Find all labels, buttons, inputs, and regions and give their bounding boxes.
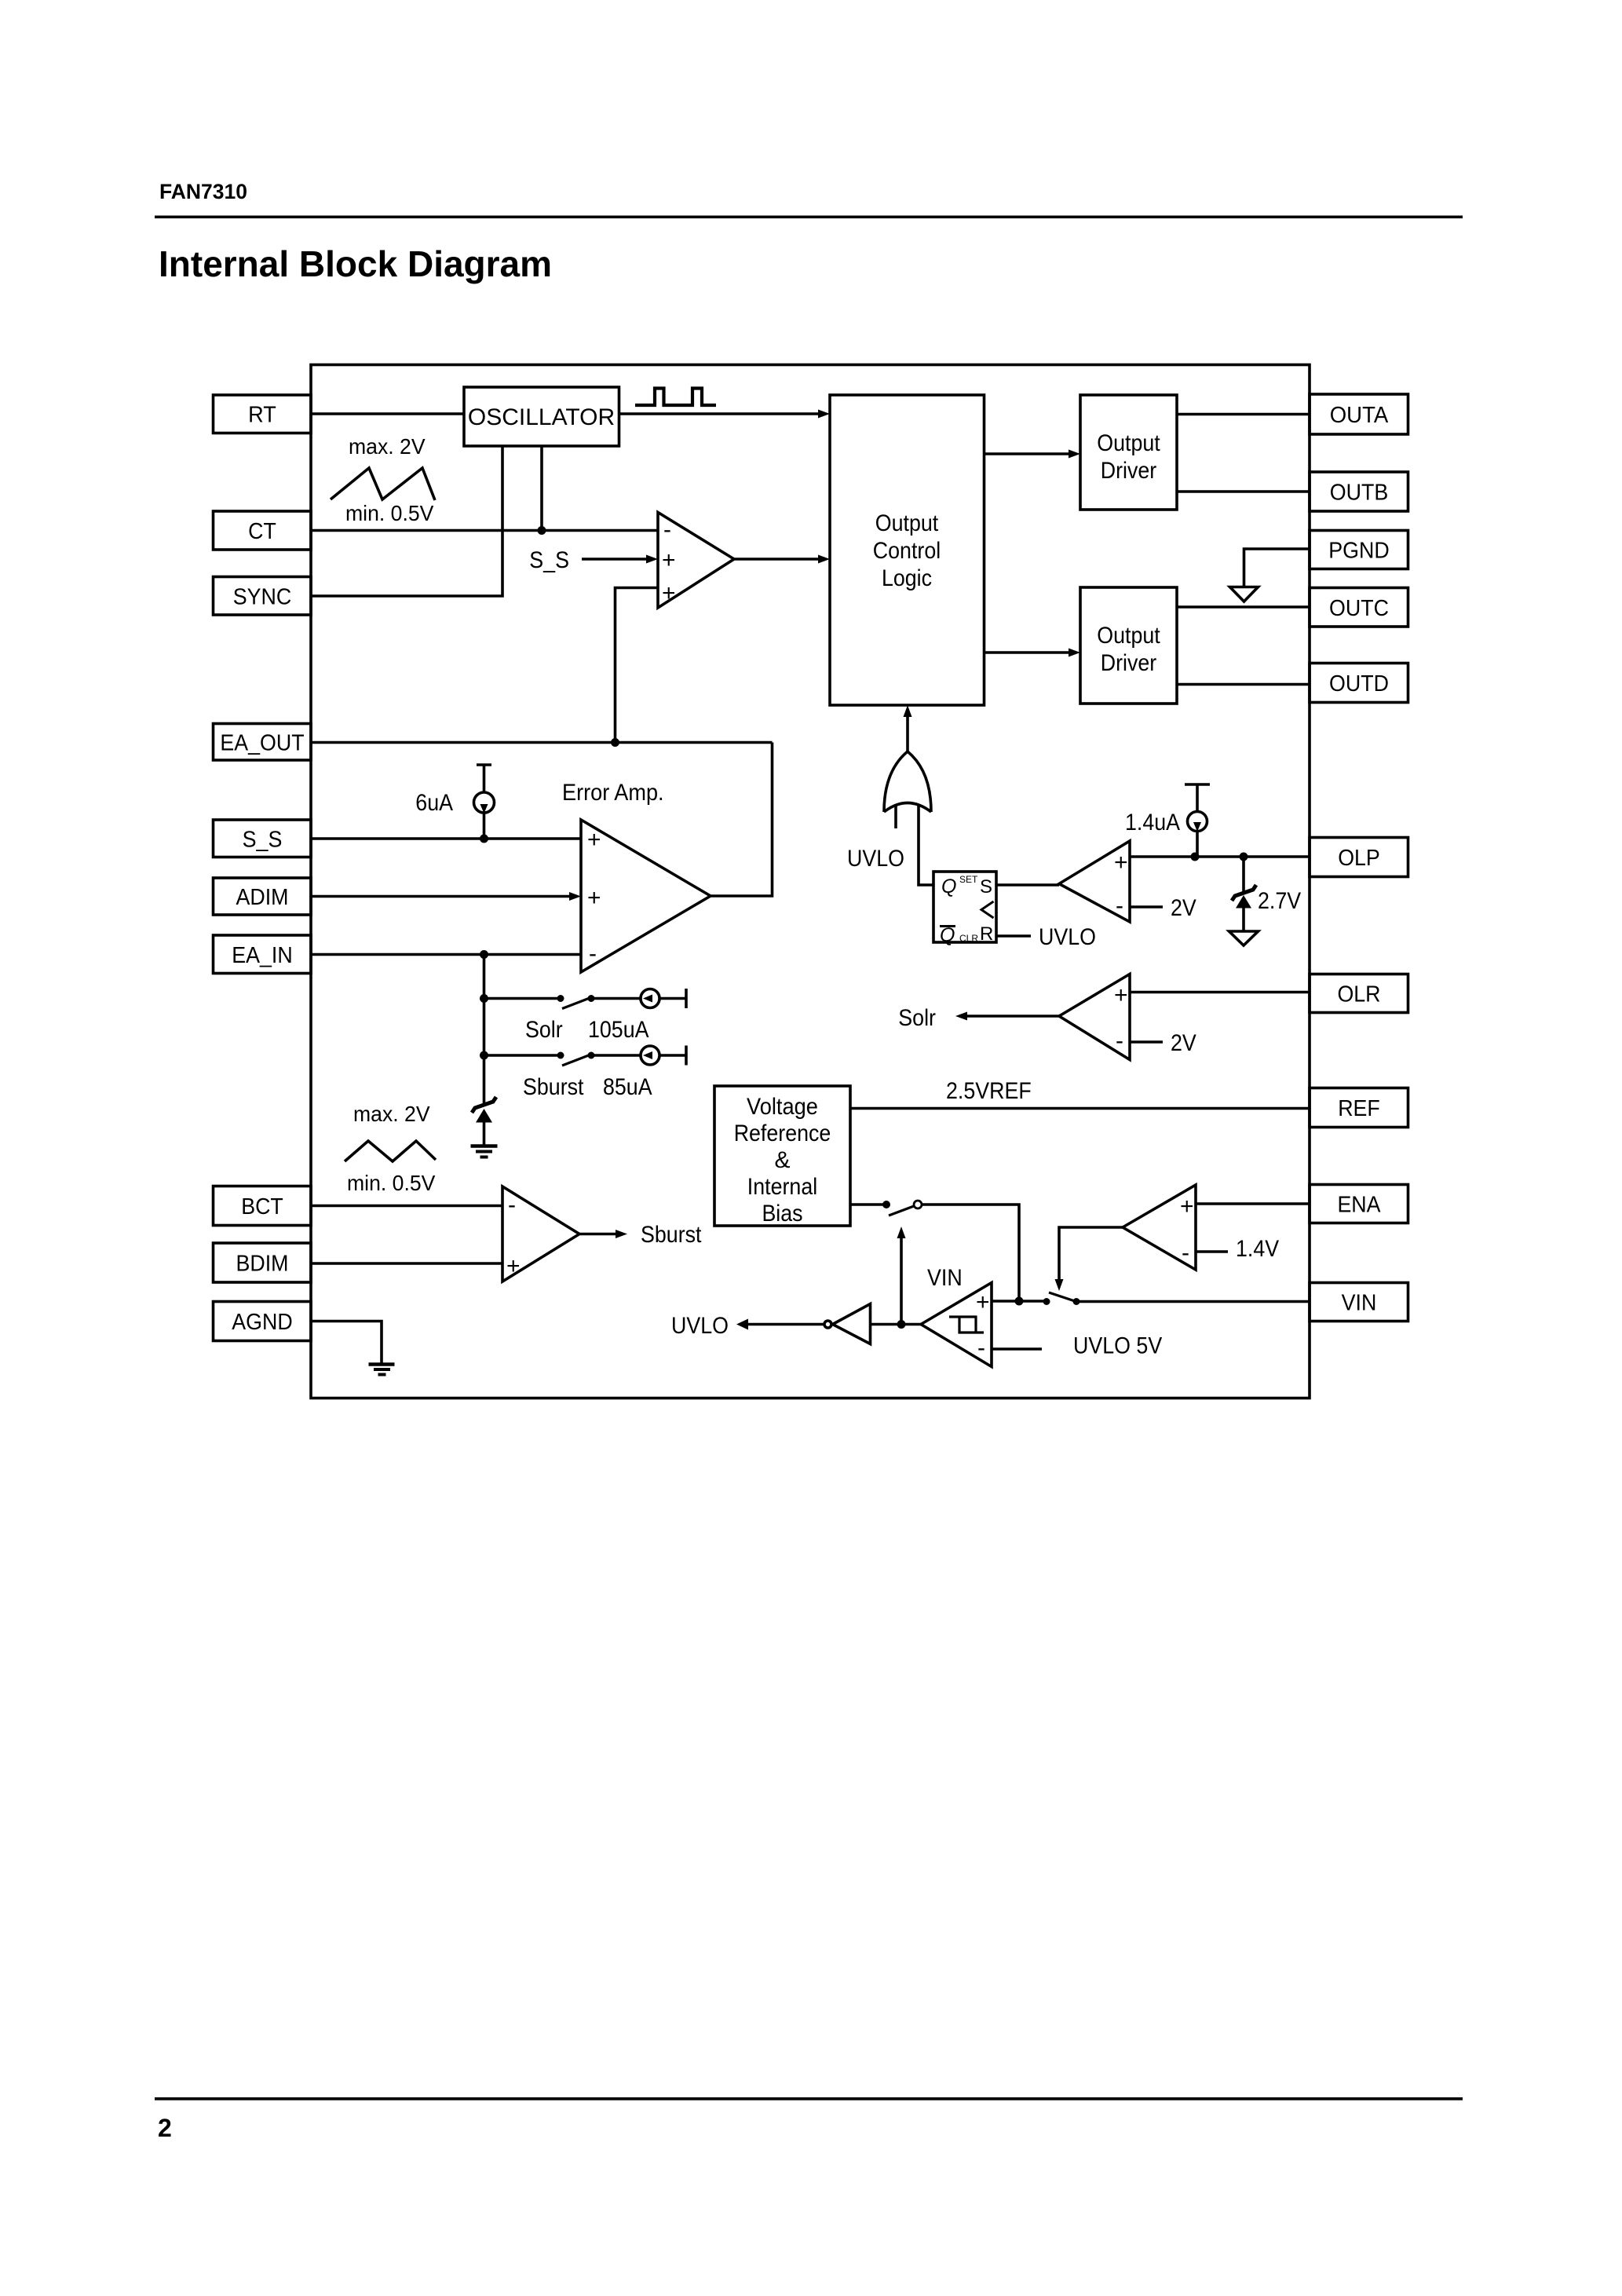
- node CT junction: [538, 526, 546, 535]
- wire driver1 to OUTA: [1177, 413, 1310, 416]
- svg-text:max. 2V: max. 2V: [349, 434, 426, 459]
- pin S_S: [214, 820, 312, 857]
- svg-text:-: -: [663, 517, 671, 543]
- CT sawtooth waveform icon: [331, 468, 435, 500]
- wire ENA comparator minus input: [1196, 1250, 1228, 1253]
- node VIN junction: [1015, 1297, 1024, 1306]
- svg-text:OLR: OLR: [1337, 982, 1380, 1007]
- svg-text:VIN: VIN: [1342, 1291, 1377, 1316]
- svg-text:+: +: [1180, 1194, 1194, 1219]
- header rule: [155, 216, 1463, 219]
- wire EA_IN to error amp: [311, 953, 581, 956]
- wire BDIM to burst comparator: [311, 1262, 502, 1265]
- pin OUTB: [1310, 472, 1408, 511]
- svg-text:OUTD: OUTD: [1329, 671, 1389, 696]
- wire oscillator to SYNC: [311, 446, 502, 596]
- svg-text:+: +: [1114, 850, 1128, 876]
- svg-text:OUTB: OUTB: [1330, 481, 1389, 506]
- svg-text:SYNC: SYNC: [233, 585, 292, 610]
- pin ADIM: [214, 878, 312, 915]
- node S_S / 6uA junction: [480, 835, 488, 843]
- svg-text:UVLO: UVLO: [1039, 924, 1096, 950]
- svg-text:BCT: BCT: [241, 1194, 283, 1219]
- pin OUTC: [1310, 588, 1408, 627]
- svg-text:VIN: VIN: [927, 1265, 963, 1291]
- switch Solr: [557, 995, 595, 1009]
- wire R input: [996, 934, 1031, 938]
- burst comparator U10: [502, 1186, 579, 1281]
- output driver 1 block: [1080, 395, 1177, 510]
- svg-text:+: +: [1114, 982, 1128, 1008]
- svg-text:UVLO 5V: UVLO 5V: [1073, 1333, 1162, 1359]
- ground symbol (AGND): [369, 1365, 395, 1375]
- svg-text:S_S: S_S: [529, 547, 569, 573]
- current source 105uA: [591, 989, 686, 1008]
- switch S1 (enable): [882, 1201, 922, 1216]
- svg-text:2: 2: [158, 2114, 172, 2142]
- ground symbol (PGND): [1230, 587, 1259, 602]
- node OLP junction 1: [1191, 853, 1200, 861]
- node OLP junction 2: [1240, 853, 1248, 861]
- svg-text:Driver: Driver: [1101, 458, 1156, 484]
- svg-text:Output: Output: [875, 510, 939, 536]
- svg-text:-: -: [977, 1335, 985, 1361]
- wire driver1 to OUTB: [1177, 490, 1310, 493]
- OLP comparator U5: [1059, 841, 1130, 922]
- wire S input from OLP comparator: [996, 883, 1059, 887]
- pin CT: [214, 511, 312, 550]
- zener diode D1: [472, 1097, 496, 1145]
- svg-text:max. 2V: max. 2V: [353, 1102, 430, 1126]
- current source 6uA: [474, 765, 495, 839]
- wire schmitt minus input: [992, 1347, 1042, 1351]
- svg-text:Reference: Reference: [734, 1121, 831, 1146]
- svg-text:Error Amp.: Error Amp.: [562, 780, 664, 806]
- switch S2 (VIN): [1019, 1292, 1080, 1305]
- svg-text:6uA: 6uA: [415, 790, 453, 816]
- svg-text:OUTA: OUTA: [1330, 403, 1389, 428]
- wire flip-flop Q to OR gate: [919, 806, 933, 885]
- svg-text:ENA: ENA: [1337, 1193, 1381, 1218]
- wire switch to VIN pin: [1076, 1300, 1310, 1303]
- svg-text:Output: Output: [1097, 430, 1160, 456]
- output driver 2 block: [1080, 587, 1177, 704]
- svg-text:-: -: [1116, 893, 1123, 919]
- node schmitt output junction: [897, 1320, 906, 1329]
- svg-text:-: -: [1182, 1240, 1189, 1266]
- current source 85uA: [591, 1046, 686, 1066]
- wire EA_IN down chain: [483, 955, 486, 1104]
- wire switch to VIN node: [922, 1205, 1019, 1301]
- svg-text:OSCILLATOR: OSCILLATOR: [468, 404, 615, 430]
- wire S_S to error amp: [311, 837, 581, 840]
- wire RT to oscillator: [311, 412, 464, 415]
- pin ENA: [1310, 1185, 1408, 1223]
- wire oscillator to output control logic: [619, 410, 831, 419]
- schmitt comparator U8: [921, 1283, 992, 1367]
- pin OLR: [1310, 974, 1408, 1013]
- pin PGND: [1310, 531, 1408, 569]
- svg-text:S: S: [980, 876, 992, 898]
- output control logic block: [830, 395, 985, 705]
- wire BCT to burst comparator: [311, 1205, 502, 1208]
- svg-text:-: -: [508, 1192, 516, 1218]
- svg-text:+: +: [662, 547, 676, 573]
- inverter U9: [824, 1304, 871, 1344]
- OLR comparator U6: [1059, 974, 1130, 1060]
- ground symbol (2.7V zener): [1229, 931, 1259, 945]
- wire EA_OUT: [311, 741, 773, 744]
- pin OUTA: [1310, 394, 1408, 434]
- pin OLP: [1310, 838, 1408, 877]
- wire driver2 to OUTC: [1177, 605, 1310, 609]
- svg-text:Solr: Solr: [525, 1017, 563, 1043]
- wire comparator third input from EA_OUT node: [616, 588, 659, 743]
- svg-text:Internal: Internal: [747, 1174, 817, 1200]
- current source 1.4uA: [1185, 784, 1210, 857]
- svg-text:105uA: 105uA: [588, 1017, 649, 1043]
- wire ENA pin to comparator: [1196, 1202, 1310, 1205]
- wire driver2 to OUTD: [1177, 683, 1310, 686]
- wire UVLO output arrow: [736, 1319, 824, 1330]
- wire OR gate to OCL: [904, 705, 912, 751]
- wire OLP comparator minus input: [1130, 905, 1163, 909]
- BCT sawtooth waveform icon: [345, 1141, 436, 1161]
- pin RT: [214, 395, 312, 433]
- svg-text:Sburst: Sburst: [641, 1222, 702, 1248]
- wire OLR pin to comparator: [1130, 991, 1310, 994]
- svg-text:2V: 2V: [1171, 1030, 1196, 1056]
- pin AGND: [214, 1302, 312, 1341]
- ENA comparator U7: [1123, 1185, 1196, 1270]
- svg-text:Logic: Logic: [882, 565, 932, 591]
- wire schmitt output to inverter: [871, 1323, 921, 1326]
- error amp U2: [581, 820, 711, 972]
- svg-text:EA_IN: EA_IN: [232, 943, 293, 968]
- svg-text:EA_OUT: EA_OUT: [220, 731, 304, 756]
- node EA_OUT junction: [611, 738, 619, 747]
- svg-text:AGND: AGND: [232, 1310, 292, 1335]
- svg-text:CLR: CLR: [959, 933, 978, 944]
- svg-text:SET: SET: [959, 874, 978, 885]
- wire S_S arrow into comparator: [582, 555, 658, 564]
- wire CT to PWM comparator: [311, 529, 658, 532]
- switch Sburst: [557, 1052, 595, 1066]
- node EA_IN junction: [480, 950, 488, 959]
- pin SYNC: [214, 577, 312, 616]
- pin EA_IN: [214, 935, 312, 974]
- pin BCT: [214, 1186, 312, 1226]
- svg-text:Control: Control: [873, 538, 941, 564]
- svg-text:OUTC: OUTC: [1329, 596, 1389, 621]
- pin BDIM: [214, 1243, 312, 1282]
- wire 2.5VREF to REF pin: [850, 1107, 1310, 1110]
- oscillator block U-OSC: [464, 387, 619, 446]
- svg-text:1.4uA: 1.4uA: [1125, 810, 1180, 835]
- node branch Solr: [480, 994, 488, 1003]
- wire schmitt plus input: [992, 1300, 1019, 1303]
- wire PWM comparator output to OCL: [734, 555, 830, 564]
- svg-text:RT: RT: [248, 403, 276, 428]
- pin VIN: [1310, 1283, 1408, 1322]
- svg-text:85uA: 85uA: [603, 1074, 652, 1100]
- node branch Sburst: [480, 1051, 488, 1060]
- svg-text:Q: Q: [941, 876, 956, 898]
- svg-text:Output: Output: [1097, 623, 1160, 649]
- wire error amp output to EA_OUT: [711, 743, 773, 897]
- wire ADIM to error amp: [311, 892, 581, 901]
- flip-flop U4: [933, 872, 996, 946]
- svg-text:+: +: [976, 1289, 990, 1315]
- wire vref to switch: [850, 1203, 886, 1206]
- pin REF: [1310, 1088, 1408, 1128]
- voltage reference block: [714, 1086, 850, 1227]
- zener diode D2 2.7V: [1232, 857, 1256, 931]
- svg-text:+: +: [662, 580, 676, 606]
- svg-text:OLP: OLP: [1338, 846, 1380, 871]
- svg-text:REF: REF: [1338, 1096, 1380, 1121]
- svg-text:Voltage: Voltage: [747, 1094, 818, 1120]
- svg-text:Sburst: Sburst: [523, 1074, 584, 1100]
- clock waveform icon: [635, 389, 716, 406]
- wire OLR comparator minus input: [1130, 1040, 1163, 1044]
- wire arrow up to vref block: [897, 1227, 906, 1325]
- svg-text:+: +: [506, 1253, 521, 1279]
- svg-text:PGND: PGND: [1328, 539, 1389, 564]
- footer rule: [155, 2097, 1463, 2100]
- svg-text:2.7V: 2.7V: [1258, 888, 1301, 914]
- wire branch Solr: [484, 997, 559, 1000]
- svg-text:Solr: Solr: [898, 1005, 936, 1031]
- svg-text:-: -: [1116, 1028, 1123, 1054]
- wire PGND to ground: [1244, 549, 1310, 587]
- svg-text:Internal Block Diagram: Internal Block Diagram: [159, 243, 552, 284]
- PWM comparator U1: [658, 513, 734, 609]
- svg-text:UVLO: UVLO: [671, 1313, 729, 1339]
- wire OCL to driver 1: [985, 450, 1081, 459]
- svg-text:1.4V: 1.4V: [1236, 1236, 1279, 1262]
- chip outline: [311, 365, 1310, 1398]
- wire branch Sburst: [484, 1054, 559, 1057]
- svg-text:2.5VREF: 2.5VREF: [946, 1078, 1032, 1104]
- ground symbol (zener): [471, 1146, 498, 1157]
- svg-text:ADIM: ADIM: [236, 885, 289, 910]
- svg-text:min. 0.5V: min. 0.5V: [345, 501, 434, 525]
- svg-text:+: +: [587, 885, 601, 911]
- pin EA_OUT: [214, 724, 312, 761]
- wire oscillator to CT line: [540, 446, 543, 531]
- wire OCL to driver 2: [985, 649, 1081, 657]
- svg-text:&: &: [774, 1147, 790, 1173]
- svg-text:S_S: S_S: [243, 828, 283, 853]
- svg-text:FAN7310: FAN7310: [159, 180, 247, 203]
- svg-text:BDIM: BDIM: [236, 1252, 289, 1277]
- wire ENA comparator output to switch: [1055, 1227, 1123, 1291]
- wire AGND to ground: [311, 1322, 382, 1364]
- svg-text:UVLO: UVLO: [847, 846, 904, 872]
- OR gate U3: [884, 751, 931, 812]
- svg-text:Driver: Driver: [1101, 650, 1156, 676]
- svg-text:-: -: [589, 941, 597, 967]
- wire Solr output arrow: [955, 1012, 1059, 1021]
- svg-text:+: +: [587, 827, 601, 853]
- wire UVLO input stub to OR: [894, 804, 897, 828]
- wire Sburst output arrow: [579, 1230, 627, 1238]
- svg-text:Q: Q: [940, 924, 955, 946]
- svg-text:R: R: [980, 923, 993, 945]
- wire OLP pin to comparator: [1130, 855, 1310, 858]
- pin OUTD: [1310, 664, 1408, 703]
- svg-text:min. 0.5V: min. 0.5V: [347, 1171, 436, 1195]
- svg-text:2V: 2V: [1171, 895, 1196, 921]
- svg-text:CT: CT: [248, 519, 276, 544]
- svg-text:Bias: Bias: [762, 1201, 802, 1227]
